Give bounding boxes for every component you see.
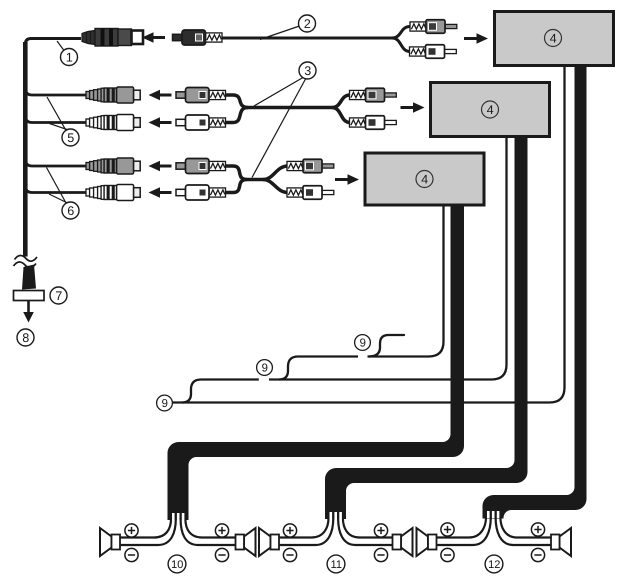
label 9 on line C (157, 395, 173, 411)
wire: row1 antenna lead (25, 39, 81, 45)
RCA plug white to box2 (350, 116, 397, 130)
speaker cable from box1 to pair 12 (483, 67, 587, 519)
wire: Y-split row1 lower (392, 38, 411, 52)
wire: row2/3 merge Y (226, 95, 332, 108)
wire: line A left part (300, 355, 358, 357)
arrow right into box1 (464, 33, 488, 43)
RCA plug white row5 (176, 185, 226, 200)
arrow left row1 (142, 32, 165, 42)
RCA plug gray to box2 (350, 88, 397, 102)
label 6 (62, 202, 79, 219)
speaker wires pair 11 (279, 518, 393, 545)
arrow down to 8 (27, 301, 30, 314)
wire: line B left part (201, 378, 259, 380)
fan notches pair 10 (172, 513, 184, 520)
arrow left row2 (149, 90, 172, 100)
left speaker pair 11 (259, 528, 279, 556)
antenna jack (1) (82, 29, 143, 47)
label 3 (299, 62, 316, 79)
plus/minus pair 11 (283, 524, 296, 537)
wire: S-step line B to line A (279, 357, 300, 380)
amplifier box3 (4) (365, 153, 484, 205)
connector body (7) white block (14, 291, 45, 301)
label 10 (168, 555, 186, 573)
label 2 (299, 15, 316, 32)
arrow left row3 (149, 117, 172, 127)
cable break squiggle (15, 255, 38, 261)
wire: remote lead from box1 (line C) (173, 67, 565, 403)
wire: branch to gray jack row4 (25, 159, 87, 166)
cable end wedge (7) (22, 265, 36, 290)
wire: row4/5 merge Y (226, 166, 263, 180)
wire: remote lead from box3 (line A right) (368, 206, 444, 357)
RCA plug white to box1 (410, 45, 457, 59)
fan notches pair 11 (330, 512, 342, 519)
RCA plug gray to box3 (287, 159, 334, 173)
wire: trunk cable from head unit (23, 42, 28, 257)
RCA plug gray row4 (176, 159, 226, 174)
amplifier box1 (4) (495, 12, 614, 66)
arrow left row5 (149, 187, 172, 197)
speaker cable from box3 to pair 10 (168, 206, 465, 520)
RCA plug white row3 (176, 115, 226, 130)
label 5 (62, 129, 79, 146)
label 12 (485, 555, 503, 573)
wire: row4/5 split Y to box3 plugs (263, 166, 288, 180)
arrow right into box3 (335, 174, 359, 184)
label 8 (17, 329, 34, 346)
leader lines label 6 (47, 168, 67, 204)
leader line label 1 (57, 41, 64, 51)
RCA plug gray row2 (176, 88, 226, 103)
plus/minus pair 10 (125, 524, 138, 537)
right speaker pair 10 (236, 528, 256, 556)
wire: branch to white jack row5 (25, 186, 87, 193)
speaker wires pair 10 (120, 519, 236, 545)
label 7 (50, 287, 67, 304)
wire: row1 to Y-split (223, 37, 393, 40)
fan notches pair 12 (487, 511, 499, 518)
left speaker pair 12 (417, 528, 437, 556)
leader line label 2 (260, 26, 300, 40)
amplifier box2 (4) (431, 83, 550, 137)
left speaker pair 10 (100, 528, 120, 556)
label 11 (327, 555, 345, 573)
speaker cable from box2 to pair 11 (325, 138, 528, 519)
RCA jack white row5 (86, 185, 140, 201)
RCA jack gray row4 (86, 158, 140, 174)
wire: branch to white jack row3 (25, 116, 87, 123)
right speaker pair 12 (551, 528, 571, 556)
label 9 on line B (257, 360, 273, 376)
label 1 (61, 49, 78, 66)
wire: Y-split row1 upper (392, 27, 411, 39)
leader lines label 3 (254, 78, 303, 107)
RCA jack white row3 (86, 115, 140, 131)
RCA plug white to box3 (287, 186, 334, 200)
wire: remote stub tip (369, 335, 404, 357)
wire: branch to gray jack row2 (25, 88, 87, 95)
arrow right into box2 (401, 102, 425, 112)
speaker wires pair 12 (437, 517, 552, 545)
wire: S-step line C to line B (182, 380, 201, 403)
arrow left row4 (149, 161, 172, 171)
plus/minus pair 12 (441, 523, 454, 536)
wire: remote lead from box2 (line B right) (269, 138, 507, 380)
leader lines label 5 (47, 97, 66, 131)
wire: row2/3 split Y to box2 plugs (332, 95, 351, 108)
RCA jack gray row2 (86, 87, 140, 103)
right speaker pair 11 (393, 528, 413, 556)
RCA plug gray to box1 (410, 20, 457, 34)
male mini plug (2) (173, 30, 223, 45)
label 9 on line A (355, 335, 371, 351)
